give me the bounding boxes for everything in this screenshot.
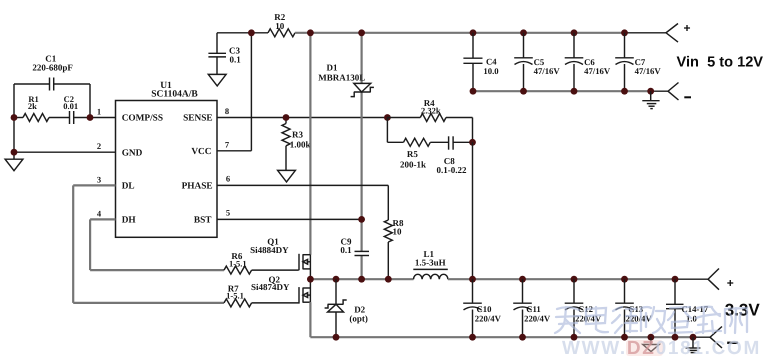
svg-text:6: 6 (226, 174, 230, 184)
svg-text:Si4884DY: Si4884DY (250, 245, 289, 255)
resistor R5 (387, 118, 448, 170)
wire left vertical to ground (13, 84, 15, 159)
capacitor C7 (615, 33, 661, 91)
svg-text:10: 10 (275, 21, 285, 31)
svg-text:1.00k: 1.00k (290, 140, 311, 150)
node SENSE-R4 (384, 114, 391, 121)
pin label COMP/SS (122, 114, 163, 124)
svg-text:47/16V: 47/16V (534, 66, 561, 76)
resistor R6 (224, 251, 299, 274)
resistor R1 (14, 94, 49, 121)
svg-text:C10: C10 (477, 304, 493, 314)
watermark chinese characters (approx strokes) (555, 307, 747, 333)
node bus C11 (519, 334, 526, 341)
svg-text:0.1: 0.1 (230, 54, 242, 64)
pin number 1 (97, 107, 101, 117)
svg-text:Si4874DY: Si4874DY (251, 282, 290, 292)
pin label DL (122, 182, 135, 192)
label Vin 5 to 12V (677, 54, 764, 70)
pin number 4 (97, 208, 102, 218)
wire Q1 drain vertical (gray) (309, 33, 311, 255)
svg-text:VCC: VCC (191, 147, 211, 157)
pin label SENSE (183, 114, 212, 124)
transistor Q1 Si4884DY (299, 254, 310, 270)
node vinbus ground (647, 88, 654, 95)
node bus C13 (621, 334, 628, 341)
resistor R4 (387, 98, 472, 122)
pin number 8 (225, 106, 229, 116)
svg-text:+: + (727, 276, 734, 290)
watermark pink highlight behind DZ (626, 340, 663, 356)
node out C13 (621, 276, 628, 283)
node bus C14-17 (672, 334, 679, 341)
wire top bus main (gray) (295, 32, 666, 34)
svg-text:2k: 2k (28, 101, 37, 111)
node bus ground tri (648, 334, 655, 341)
svg-text:SC1104A/B: SC1104A/B (151, 90, 198, 100)
node switch-Q1 (307, 276, 314, 283)
ground G1 (5, 159, 23, 171)
node top C5 (520, 29, 527, 36)
node vinbus C6 (571, 88, 578, 95)
wire BST net pin5 (217, 218, 362, 220)
svg-text:2: 2 (97, 141, 101, 151)
svg-text:+: + (683, 21, 690, 35)
svg-text:SENSE: SENSE (183, 114, 212, 124)
node VCC-top (248, 29, 255, 36)
svg-text:1-5.1: 1-5.1 (226, 291, 244, 301)
pin number 3 (97, 174, 101, 184)
node out C11 (519, 276, 526, 283)
svg-text:PHASE: PHASE (182, 182, 213, 192)
node switch-R8 (385, 276, 392, 283)
svg-text:47/16V: 47/16V (635, 66, 662, 76)
node SENSE-R3 (283, 114, 290, 121)
terminal Vin minus arrow (668, 83, 691, 101)
diode D1 MBRA130L (318, 63, 374, 97)
svg-text:3.3V: 3.3V (725, 301, 761, 320)
label Q2 (251, 274, 290, 291)
capacitor C14-17 (666, 279, 709, 337)
watermark url text (562, 338, 761, 358)
svg-text:DH: DH (122, 216, 137, 226)
capacitor C13 (615, 279, 652, 337)
wire GND pin to ground (11, 149, 116, 156)
node top C7 (621, 29, 628, 36)
capacitor C12 (565, 279, 602, 337)
capacitor C3 (208, 45, 241, 74)
op-amp U1 SC1104A/B box (116, 81, 218, 237)
svg-text:Vin 5 to 12V: Vin 5 to 12V (677, 54, 764, 70)
pin label GND (122, 148, 143, 158)
node bus ground earth (690, 334, 697, 341)
svg-text:3: 3 (97, 174, 101, 184)
capacitor C6 (565, 33, 611, 91)
capacitor C4 (463, 33, 499, 91)
wire bottom bus (gray) (310, 336, 710, 338)
node switch-D2 (333, 276, 340, 283)
node COMP junction (11, 114, 94, 121)
ground E1 earth below vin bus (642, 91, 659, 108)
capacitor C8 (437, 136, 473, 175)
svg-text:0.1: 0.1 (340, 245, 352, 255)
node out C12 (571, 276, 578, 283)
svg-text:GND: GND (122, 148, 143, 158)
label Q1 (250, 237, 289, 255)
svg-text:BST: BST (194, 216, 212, 226)
wire switch node row (gray) (310, 278, 413, 280)
svg-text:MBRA130L: MBRA130L (318, 73, 365, 83)
svg-text:5: 5 (226, 208, 230, 218)
diode D2 (opt) (325, 279, 368, 337)
resistor R8 (384, 218, 404, 279)
node bus D2 (333, 334, 340, 341)
node switch-C9 (358, 276, 365, 283)
wire output row (gray) (448, 278, 708, 280)
ground G4 triangle below out bus (643, 337, 659, 351)
svg-text:0.1-0.22: 0.1-0.22 (437, 165, 467, 175)
wire DH loop (gray) (90, 219, 224, 270)
node bus C12 (571, 334, 578, 341)
capacitor C2 (49, 94, 116, 124)
ground G3 below R3 (278, 170, 296, 182)
ground G2 below C3 (208, 74, 226, 86)
wire SENSE net (217, 117, 387, 119)
pin label VCC (191, 147, 211, 157)
svg-text:47/16V: 47/16V (584, 66, 611, 76)
node out C14-17 (672, 276, 679, 283)
capacitor C11 (513, 279, 551, 337)
label 3.3V (725, 301, 761, 320)
svg-text:R5: R5 (407, 149, 418, 159)
resistor R7 (224, 283, 299, 307)
resistor R2 (268, 12, 295, 37)
pin label PHASE (182, 182, 213, 192)
svg-text:220-680pF: 220-680pF (32, 62, 73, 72)
inductor L1 (413, 249, 448, 279)
pin label DH (122, 216, 137, 226)
svg-text:220/4V: 220/4V (475, 314, 502, 324)
svg-text:2.32k: 2.32k (421, 105, 441, 115)
node out L1/C10/feedback (469, 276, 476, 283)
terminal out plus arrow (708, 269, 734, 291)
wire compensation loop top (14, 84, 90, 118)
wire top bus left (217, 33, 268, 54)
svg-text:DL: DL (122, 182, 135, 192)
wire VCC pin7 (217, 33, 251, 151)
wire DL loop (gray) (73, 185, 224, 303)
wire PHASE net pin6 (217, 185, 388, 220)
pin number 7 (225, 139, 230, 149)
capacitor C1 (32, 53, 73, 90)
capacitor C9 (340, 236, 369, 255)
svg-text:COMP/SS: COMP/SS (122, 114, 163, 124)
terminal out minus arrow (710, 327, 738, 349)
pin label BST (194, 216, 212, 226)
wire Vin minus bus (gray) (473, 90, 668, 92)
node top-Q1drain (307, 29, 314, 36)
ground E2 earth below out bus (686, 337, 701, 352)
svg-text:D1: D1 (327, 63, 338, 73)
svg-text:8: 8 (225, 106, 229, 116)
svg-text:1.5-3uH: 1.5-3uH (415, 257, 446, 267)
svg-text:1: 1 (97, 107, 101, 117)
svg-text:0.01: 0.01 (63, 101, 78, 111)
svg-text:(opt): (opt) (349, 314, 368, 324)
svg-text:1-5.1: 1-5.1 (229, 258, 247, 268)
svg-text:220/4V: 220/4V (524, 314, 551, 324)
svg-text:10.0: 10.0 (483, 66, 499, 76)
node top-D1 (358, 29, 365, 36)
pin number 5 (226, 208, 230, 218)
pin number 2 (97, 141, 101, 151)
node top C4 (470, 29, 477, 36)
svg-text:WWW.DZ0181.COM: WWW.DZ0181.COM (562, 338, 761, 358)
node BST junction (358, 216, 365, 223)
wire feedback vertical to output (472, 142, 474, 279)
node vinbus C7 (621, 88, 628, 95)
svg-text:C11: C11 (526, 304, 540, 314)
node vinbus C5 (520, 88, 527, 95)
wire Q2 drain/source verticals (309, 279, 311, 337)
svg-text:10: 10 (393, 226, 403, 236)
svg-text:R3: R3 (292, 130, 303, 140)
capacitor C10 (463, 279, 501, 337)
terminal Vin plus arrow (666, 21, 691, 42)
wire D1/BST/C9 vertical (gray) (361, 33, 363, 279)
pin number 6 (226, 174, 230, 184)
node bus C10 (469, 334, 476, 341)
resistor R3 (282, 118, 310, 171)
wire Q1 source to switch node (309, 255, 311, 280)
node top C6 (571, 29, 578, 36)
node C8 output (469, 139, 476, 146)
svg-text:200-1k: 200-1k (400, 159, 426, 169)
capacitor C5 (514, 33, 560, 91)
node vinbus C4 (470, 88, 477, 95)
wire R4 corner down (472, 118, 474, 143)
transistor Q2 Si4874DY (299, 287, 310, 304)
